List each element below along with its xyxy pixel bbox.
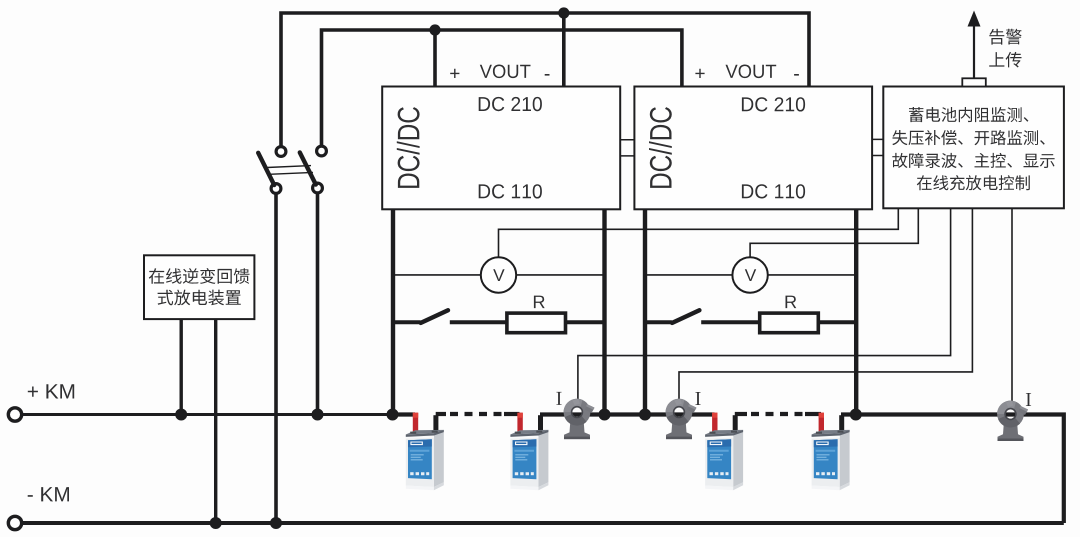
label discharge device line1 [149, 268, 250, 284]
switch blade S2 [672, 310, 699, 323]
label -KM [28, 487, 69, 501]
label I of CT3 [1026, 393, 1031, 406]
current transformer CT2 [666, 399, 697, 440]
wire: U1 right leg to battery bus [602, 209, 606, 415]
wire: left breaker pole down to -KM [274, 193, 278, 523]
wire: V2 measuring taps [645, 274, 856, 276]
+KM bus line [22, 413, 416, 416]
breaker QF top-left contact [276, 147, 286, 157]
wire: V1 measuring taps [393, 274, 605, 276]
wire: right breaker pole down to +KM [316, 193, 320, 415]
label U1 plus [450, 69, 459, 78]
node: breaker pole on +KM [312, 409, 324, 421]
voltmeter V1 [481, 257, 516, 292]
-KM bus line [22, 521, 1064, 525]
switch blade S1 [421, 310, 448, 323]
wire: inner top loop, right breaker pole to U2 plus [322, 30, 682, 156]
node: junction inner top wire [429, 24, 440, 35]
wire: drop to U1 plus [433, 30, 437, 88]
terminal +KM [8, 408, 21, 421]
link U1-U2 [620, 140, 634, 156]
voltmeter V2 [732, 257, 767, 292]
wire: V2 sense to controller [750, 209, 918, 259]
alarm upload arrow [973, 24, 975, 78]
label controller line4 [917, 175, 1030, 190]
discharge device box [144, 255, 254, 319]
label U1 DC 210 [479, 97, 542, 111]
wire: discharge device to +KM [179, 319, 182, 414]
DC//DC module U1 box [382, 87, 620, 210]
breaker QF bottom-right contact [313, 183, 323, 193]
node: junction outer top wire [558, 7, 569, 18]
link U2-U3 [872, 139, 883, 155]
wire: U1 left leg to +KM [391, 209, 395, 415]
breaker QF right blade [300, 153, 316, 185]
label U1 DC 110 [479, 184, 542, 198]
label R2 [786, 296, 797, 309]
DC//DC module U2 box [634, 87, 872, 210]
wire: CT3 sense to controller [1011, 209, 1013, 405]
battery dashed link group 2 [735, 412, 747, 416]
node: breaker pole on -KM [270, 517, 282, 529]
label I of CT2 [695, 392, 700, 405]
wire: outer top loop, left breaker pole to U2 minus [281, 13, 809, 156]
battery B2 [510, 413, 548, 491]
label U2 DC 110 [742, 184, 805, 198]
label U2 DC 210 [742, 97, 805, 111]
label alarm upload line1 [989, 29, 1021, 45]
wire: CT1 sense to controller [578, 209, 951, 405]
node: U2 left leg on battery bus [639, 409, 651, 421]
label I of CT1 [556, 392, 561, 405]
label U1 VOUT [480, 65, 531, 79]
battery bus center segment [540, 412, 715, 416]
label +KM [28, 384, 74, 398]
label controller line2 [892, 130, 1045, 145]
node: discharge device on -KM [210, 517, 222, 529]
current transformer CT1 [564, 399, 595, 440]
node: discharge device on +KM [175, 409, 187, 421]
wire: R2 discharge branch [645, 320, 856, 324]
battery bus right segment and return [841, 415, 1064, 524]
breaker QF coupling bar [267, 166, 313, 175]
breaker QF top-right contact [317, 146, 327, 156]
battery dashed link group 1 [436, 412, 446, 416]
battery bus group 1 segment [390, 412, 415, 416]
node: U1 left leg on +KM [387, 409, 399, 421]
resistor R1 [507, 313, 566, 333]
label U2 minus [794, 74, 799, 76]
label U2 VOUT [726, 65, 777, 79]
current transformer CT3 [997, 401, 1028, 442]
wire: discharge device to -KM [214, 319, 217, 523]
controller antenna stub [962, 78, 986, 86]
label U2 DC//DC [649, 107, 672, 188]
wire: U2 left leg to battery bus [643, 209, 647, 415]
battery B1 [406, 413, 444, 491]
controller U3 box [883, 87, 1064, 209]
wire: CT2 sense to controller [679, 209, 972, 405]
wire: drop to U1 minus [562, 13, 566, 88]
label U2 plus [695, 69, 704, 78]
label alarm upload line2 [989, 52, 1021, 68]
terminal -KM [8, 516, 21, 529]
node: U1 right leg on battery bus [599, 409, 611, 421]
breaker QF left blade [258, 153, 274, 185]
label R1 [534, 296, 545, 309]
label U1 minus [545, 74, 550, 76]
battery B3 [705, 413, 743, 491]
label controller line3 [892, 153, 1054, 168]
wire: V1 sense to controller [499, 209, 899, 259]
label U1 DC//DC [397, 107, 420, 188]
breaker QF bottom-left contact [271, 184, 281, 194]
battery B4 [812, 413, 850, 491]
label discharge device line2 [158, 290, 241, 306]
wire: U2 right leg to battery bus [854, 209, 858, 415]
label controller line1 [909, 107, 1028, 122]
resistor R2 [760, 313, 819, 333]
node: U2 right leg on battery bus [850, 409, 862, 421]
wire: R1 discharge branch [393, 320, 605, 324]
